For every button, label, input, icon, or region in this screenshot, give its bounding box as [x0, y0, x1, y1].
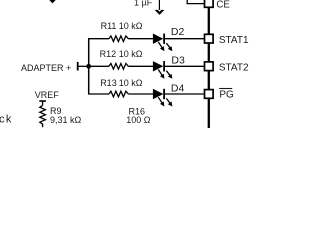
value label R12 10 kΩ [100, 49, 143, 59]
svg-text:10 kΩ: 10 kΩ [119, 49, 143, 59]
svg-text:1 µF: 1 µF [134, 0, 153, 8]
svg-text:R11: R11 [101, 21, 117, 31]
IC pin CE (box, top cut off) [205, 0, 214, 7]
svg-text:R12: R12 [100, 49, 117, 59]
IC pin STAT1 (box) [205, 34, 214, 43]
resistor R11 [109, 36, 128, 42]
terminal (ADAPTER input tick) [77, 62, 79, 71]
svg-text:ADAPTER +: ADAPTER + [21, 63, 71, 73]
wire (row1: D2 to STAT1 pin) [165, 38, 205, 40]
wire (VREF bar to R9) [42, 101, 44, 105]
value label R11 10 kΩ [101, 21, 143, 31]
ground (arrow-style ground symbol) [155, 0, 165, 15]
resistor R12 [109, 64, 128, 70]
svg-text:PG: PG [219, 90, 234, 101]
wire (row3: D4 to PG pin) [165, 93, 205, 95]
IC pin PG (box) [205, 90, 214, 99]
svg-text:VREF: VREF [35, 90, 60, 100]
svg-text:10 kΩ: 10 kΩ [119, 21, 143, 31]
svg-text:R13: R13 [100, 78, 117, 88]
wire (row2: R12 to D3) [128, 65, 153, 67]
wire (row2: D3 to STAT2 pin) [165, 65, 205, 67]
svg-text:9,31 kΩ: 9,31 kΩ [50, 115, 82, 125]
wire (row3: R13 to D4) [128, 93, 153, 95]
LED D3 [153, 61, 173, 79]
svg-text:STAT2: STAT2 [219, 62, 249, 73]
svg-text:10 kΩ: 10 kΩ [119, 78, 143, 88]
svg-text:D2: D2 [171, 26, 185, 38]
resistor R13 [109, 91, 128, 97]
LED D2 [153, 34, 173, 52]
svg-text:CE: CE [216, 0, 230, 11]
wire (ADAPTER to junction) [78, 65, 89, 67]
terminal (VREF T-bar) [39, 100, 46, 102]
svg-text:D3: D3 [171, 55, 185, 67]
value label R13 10 kΩ [100, 78, 143, 88]
pin label PG (with overline) [219, 89, 234, 101]
LED D4 [153, 89, 173, 107]
resistor R9 (vertical) [40, 105, 46, 127]
wire (top corner into CE pin) [187, 0, 205, 4]
svg-text:ck: ck [0, 114, 13, 126]
svg-text:STAT1: STAT1 [219, 35, 249, 46]
wire (right vertical bus of IC) [208, 1, 210, 128]
svg-text:100 Ω: 100 Ω [126, 115, 151, 125]
IC pin STAT2 (box) [205, 62, 214, 71]
svg-text:D4: D4 [171, 83, 185, 95]
wire (row1: R11 to D2) [128, 38, 153, 40]
junction (node on left bus) [86, 64, 91, 69]
wire (left vertical bus from row1 to row3) [88, 39, 90, 94]
node tip (cut-off symbol at top edge) [49, 0, 55, 3]
wire (row3: bus corner to R13) [88, 93, 109, 95]
wire (row2: junction to R12) [88, 65, 109, 67]
wire (row1: bus corner to R11) [88, 38, 109, 40]
